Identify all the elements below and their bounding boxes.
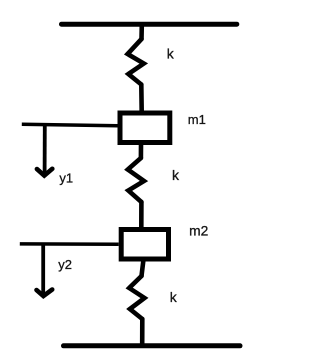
arrow y1 stem [43,125,47,176]
spring k3 (bottom) zigzag [129,276,144,319]
svg-text:m1: m1 [188,112,206,127]
svg-text:k: k [170,289,178,305]
arrow y2 head [37,290,53,297]
svg-text:y2: y2 [58,257,72,272]
wire: stub from top bar to spring 1 [139,25,144,39]
svg-text:k: k [172,167,180,183]
reference line y1 [22,124,118,125]
spring k1 (top) zigzag [128,39,144,85]
fixed support: bottom bar [64,343,241,348]
mass m2 box [121,230,168,260]
wire: rod from mass m2 to spring 3 [142,261,144,276]
arrow y1 head [37,169,52,176]
fixed support: top bar [62,22,237,27]
svg-text:y1: y1 [59,170,73,185]
spring k2 (middle) zigzag [128,158,144,202]
wire: rod from spring 3 to bottom bar [140,319,145,344]
svg-text:k: k [167,46,175,62]
wire: rod from spring 2 to mass m2 [139,202,144,229]
arrow y2 stem [41,244,45,296]
svg-text:m2: m2 [189,224,208,239]
mass m1 box [120,113,170,143]
reference line y2 [20,242,119,246]
wire: rod from mass m1 to spring 2 [139,145,144,158]
wire: rod from spring 1 to mass m1 [139,85,144,113]
